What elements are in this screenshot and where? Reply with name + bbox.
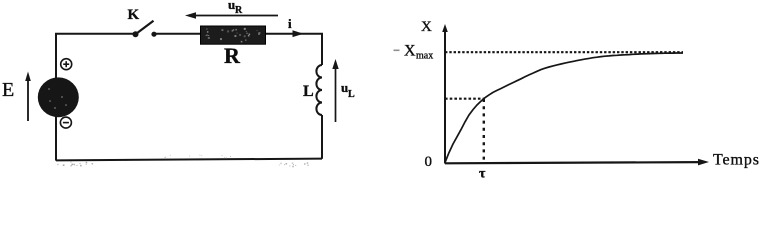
svg-text:τ: τ xyxy=(479,167,486,182)
scan artifact dash left of Xmax xyxy=(394,50,400,52)
switch K xyxy=(128,7,157,37)
svg-text:X: X xyxy=(404,43,416,60)
graph Y axis xyxy=(442,24,448,164)
svg-text:L: L xyxy=(348,89,355,100)
wire switch to resistor xyxy=(154,33,201,35)
svg-text:Temps: Temps xyxy=(713,152,760,169)
svg-text:X: X xyxy=(421,19,432,35)
scan noise specks xyxy=(57,155,309,168)
graph X axis xyxy=(445,159,709,166)
arrow i (current on wire) xyxy=(293,30,304,37)
dotted line at 0.63 Xmax xyxy=(445,98,484,100)
exponential curve xyxy=(445,53,683,163)
battery minus terminal xyxy=(60,117,71,128)
svg-text:K: K xyxy=(128,7,140,23)
wire top-left segment xyxy=(56,34,135,161)
svg-text:R: R xyxy=(235,5,243,16)
dotted line at tau xyxy=(483,99,485,163)
svg-text:i: i xyxy=(288,16,292,31)
wire bottom xyxy=(56,159,322,161)
arrow uL xyxy=(332,59,338,122)
battery E (electromotive source blob) xyxy=(38,77,79,117)
svg-text:L: L xyxy=(303,83,314,100)
arrow uR (points left over resistor) xyxy=(185,12,278,19)
svg-text:R: R xyxy=(224,43,241,68)
dotted line Xmax xyxy=(445,51,683,53)
inductor L coil xyxy=(316,65,322,115)
svg-text:0: 0 xyxy=(425,154,433,170)
battery plus terminal xyxy=(61,59,72,70)
svg-text:max: max xyxy=(416,51,433,62)
arrow E xyxy=(25,72,31,122)
wire resistor to top-right corner xyxy=(265,34,322,65)
wire inductor to bottom xyxy=(321,115,323,159)
svg-text:E: E xyxy=(2,79,14,101)
resistor R xyxy=(201,26,266,44)
